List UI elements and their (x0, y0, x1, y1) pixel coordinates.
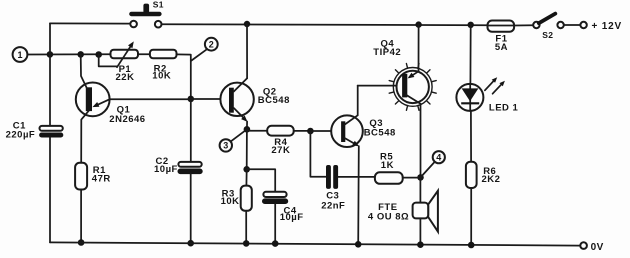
svg-text:TIP42: TIP42 (373, 47, 401, 58)
svg-text:4 OU 8Ω: 4 OU 8Ω (368, 211, 409, 222)
wire between terminals (564, 24, 581, 26)
svg-text:BC548: BC548 (258, 95, 290, 106)
+12V terminal (580, 21, 622, 32)
wire Q4 collector down (420, 104, 422, 178)
wire Q2 emitter down (246, 122, 248, 130)
transistor Q2 BC548 (220, 78, 289, 122)
svg-text:S1: S1 (153, 0, 164, 10)
wire node 2 lead (191, 50, 207, 61)
node 4 (433, 151, 445, 163)
svg-text:47R: 47R (92, 174, 111, 185)
wire LED to R6 (470, 111, 472, 162)
svg-text:LED 1: LED 1 (489, 102, 519, 113)
svg-text:10K: 10K (152, 70, 171, 81)
junction bottom rail / Q3 emitter (355, 241, 362, 248)
wire C1 to bottom rail (49, 138, 51, 243)
svg-text:22K: 22K (116, 72, 135, 83)
wire C3 to R5 (338, 176, 375, 178)
junction top rail / Q2 collector (244, 21, 250, 27)
wire C4 to bottom rail (274, 204, 276, 244)
svg-text:220µF: 220µF (6, 129, 36, 140)
junction bottom rail / speaker (417, 241, 424, 248)
transistor Q1 2N2646 (UJT) (76, 83, 146, 126)
wire Q4 emitter to top rail (418, 25, 420, 72)
potentiometer P1 22K (111, 41, 139, 83)
svg-text:22nF: 22nF (321, 201, 345, 212)
node 2 (205, 38, 218, 51)
wire Q3 collector to Q4 base (358, 85, 397, 87)
capacitor C2 10uF (154, 156, 203, 175)
capacitor C3 22nF (321, 165, 345, 212)
junction bottom rail / C4 (272, 240, 279, 247)
junction R3 / C4 branch (243, 166, 250, 173)
resistor R6 2K2 (466, 162, 501, 188)
transistor Q4 TIP42 (373, 39, 436, 111)
switch S2 (533, 14, 555, 41)
wire R2 to C2 branch (177, 54, 191, 99)
junction top rail / LED branch (468, 22, 474, 28)
wire P1 wiper stub (99, 55, 118, 67)
terminal after S2 (557, 22, 563, 28)
svg-text:1K: 1K (381, 160, 394, 171)
wire R4 to junction (294, 130, 311, 132)
wire speaker to bottom rail (419, 218, 421, 244)
capacitor C1 220uF (6, 120, 64, 140)
junction bottom rail / C2 (187, 240, 194, 247)
wire Q1 base1 lead to R1 (81, 111, 88, 163)
junction bottom rail / R1 (78, 239, 85, 246)
resistor R1 47R (75, 163, 111, 190)
wire node1 to P1 (27, 53, 110, 55)
wire R5 to junction (403, 177, 421, 179)
wire R3 to bottom rail (245, 211, 247, 244)
junction wire54 / left vertical (47, 51, 54, 58)
pushbutton S1 (129, 0, 164, 28)
junction wire54 / Q1 base2 (77, 51, 84, 58)
junction wire54 / P1 wiper (95, 51, 102, 58)
0V terminal (580, 242, 604, 253)
wire R6 to bottom rail (470, 188, 472, 245)
wire junction to speaker (419, 177, 421, 202)
wire Q2 collector to top rail (246, 24, 248, 78)
wire junction to R4 (247, 130, 267, 132)
svg-text:5A: 5A (495, 42, 508, 53)
junction R4 / Q3 base / C3 (307, 128, 314, 135)
wire junction to R3 (245, 169, 247, 185)
wire Q1 base2 lead (81, 54, 87, 88)
svg-text:3: 3 (223, 141, 228, 151)
wire Q1 emitter to junction (110, 98, 191, 100)
junction bottom rail / R3 (243, 240, 250, 247)
transistor Q3 BC548 (331, 115, 396, 147)
svg-text:2N2646: 2N2646 (109, 114, 145, 125)
junction bottom rail / R6 (468, 242, 475, 249)
wire top rail to LED (469, 25, 471, 84)
wire junction to Q3 base (310, 130, 331, 132)
wire fuse to S2 (514, 24, 533, 26)
resistor R5 1K (375, 152, 403, 184)
wire Q3 collector up (357, 86, 359, 116)
svg-text:27K: 27K (271, 145, 290, 156)
node 1 (13, 47, 28, 62)
resistor R2 10K (150, 50, 177, 82)
svg-text:10µF: 10µF (280, 212, 304, 223)
capacitor C4 10uF (262, 192, 304, 223)
svg-text:1: 1 (17, 50, 22, 60)
wire Q3 emitter to bottom rail (357, 146, 360, 244)
resistor R3 10K (221, 186, 252, 211)
wire junction down to C2 (190, 99, 192, 162)
wire bottom rail (50, 242, 580, 245)
wire junction down to C4 branch (246, 129, 248, 169)
junction top rail / Q4 emitter (415, 21, 421, 27)
wire left vertical top (rail to C1) (49, 23, 51, 126)
wire junction down to C3 (310, 131, 326, 177)
node 3 (220, 139, 232, 151)
wire top rail left segment (50, 22, 130, 24)
wire node 3 lead (231, 129, 247, 141)
wire C4 branch (247, 169, 276, 192)
LED1 (456, 77, 518, 113)
speaker FTE 4 or 8 ohm (368, 191, 438, 232)
wire P1 to R2 (138, 53, 150, 55)
wire junction to Q2 base (191, 98, 221, 100)
junction Q2 emitter / R4 / R3 (244, 126, 251, 133)
junction Q4 collector / R5 / speaker (417, 174, 424, 181)
fuse F1 5A (488, 21, 515, 54)
svg-text:4: 4 (436, 153, 441, 163)
svg-text:2K2: 2K2 (482, 174, 501, 185)
svg-text:BC548: BC548 (364, 127, 396, 138)
svg-text:0V: 0V (591, 242, 604, 253)
svg-text:+ 12V: + 12V (592, 21, 622, 32)
wire R1 to bottom rail (80, 190, 82, 243)
wire C2 to bottom rail (190, 174, 192, 243)
svg-text:10µF: 10µF (154, 164, 178, 175)
junction Q1 emitter / Q2 base / R2-C2 (188, 96, 195, 103)
svg-text:10K: 10K (221, 196, 240, 207)
wire node 4 lead (421, 162, 435, 178)
wire top rail middle segment (162, 24, 488, 25)
svg-text:S2: S2 (542, 30, 553, 40)
svg-text:2: 2 (209, 40, 214, 50)
resistor R4 27K (267, 126, 294, 156)
